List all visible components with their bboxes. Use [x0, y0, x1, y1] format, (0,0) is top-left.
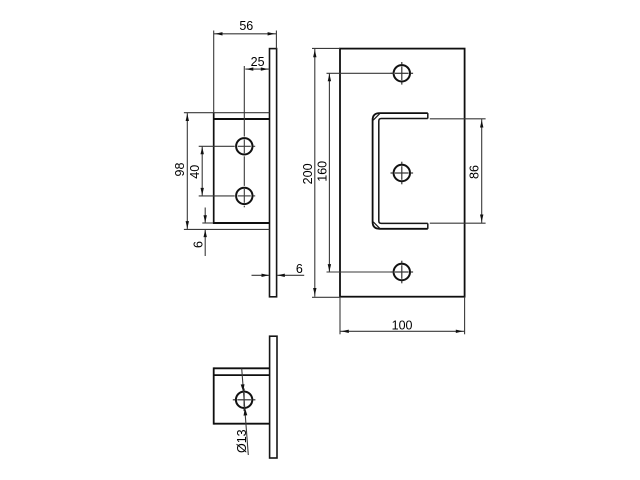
- crosshair hole top: [391, 62, 414, 85]
- crosshair hole bottom: [391, 261, 414, 284]
- bracket top edge / ext line 98: [184, 112, 270, 114]
- hole bottom view: [236, 392, 252, 408]
- dimension 160: [315, 73, 331, 272]
- dimension 25: [245, 55, 269, 71]
- dimension 6 flange thickness: [191, 208, 213, 257]
- hole H2 side view: [236, 188, 252, 204]
- bracket bottom view bend line: [214, 374, 270, 376]
- hole H2 crosshair / ext line 40: [199, 195, 256, 197]
- bracket bottom edge / ext line: [184, 228, 270, 230]
- channel top flange end cap: [427, 113, 429, 118]
- channel outer contour: [373, 113, 428, 229]
- svg-text:6: 6: [191, 241, 205, 248]
- bend edge top: [373, 113, 380, 120]
- bend edge bottom: [373, 222, 380, 229]
- svg-text:86: 86: [468, 165, 482, 179]
- bracket bottom view outline: [214, 367, 270, 424]
- svg-text:6: 6: [296, 262, 303, 276]
- dimension 56: [214, 19, 277, 112]
- svg-text:200: 200: [301, 163, 315, 184]
- channel inner contour: [379, 119, 428, 224]
- plate bottom view: [270, 336, 277, 458]
- svg-text:160: 160: [315, 161, 329, 182]
- svg-text:40: 40: [188, 165, 202, 179]
- svg-text:98: 98: [173, 163, 187, 177]
- hole H1 side view: [236, 138, 252, 154]
- dimension 6 plate thickness: [252, 262, 305, 277]
- svg-text:25: 25: [251, 55, 265, 69]
- plate side view: [270, 49, 277, 297]
- leader line diameter 13: [235, 369, 249, 456]
- bracket web outline (side view): [213, 112, 270, 224]
- hole middle front view: [394, 165, 410, 181]
- dimension 100: [340, 297, 465, 335]
- ext line bottom hole: [327, 271, 395, 273]
- hole H1 crosshair / ext line 40: [199, 145, 256, 147]
- dimension 86: [430, 119, 486, 223]
- ext line top hole: [327, 72, 395, 74]
- hole top front view: [394, 65, 410, 81]
- hole bottom front view: [394, 264, 410, 280]
- dimension 98: [173, 113, 189, 230]
- crosshair hole middle: [391, 162, 414, 185]
- svg-text:Ø13: Ø13: [235, 429, 249, 453]
- crosshair hole bottom view: [233, 389, 256, 412]
- plate front view: [340, 49, 465, 297]
- channel bottom flange end cap: [427, 223, 429, 228]
- dimension 40: [188, 146, 204, 196]
- svg-text:100: 100: [392, 318, 413, 332]
- svg-text:56: 56: [239, 19, 253, 33]
- hole centerline vertical: [243, 66, 245, 207]
- dimension 200: [301, 48, 340, 297]
